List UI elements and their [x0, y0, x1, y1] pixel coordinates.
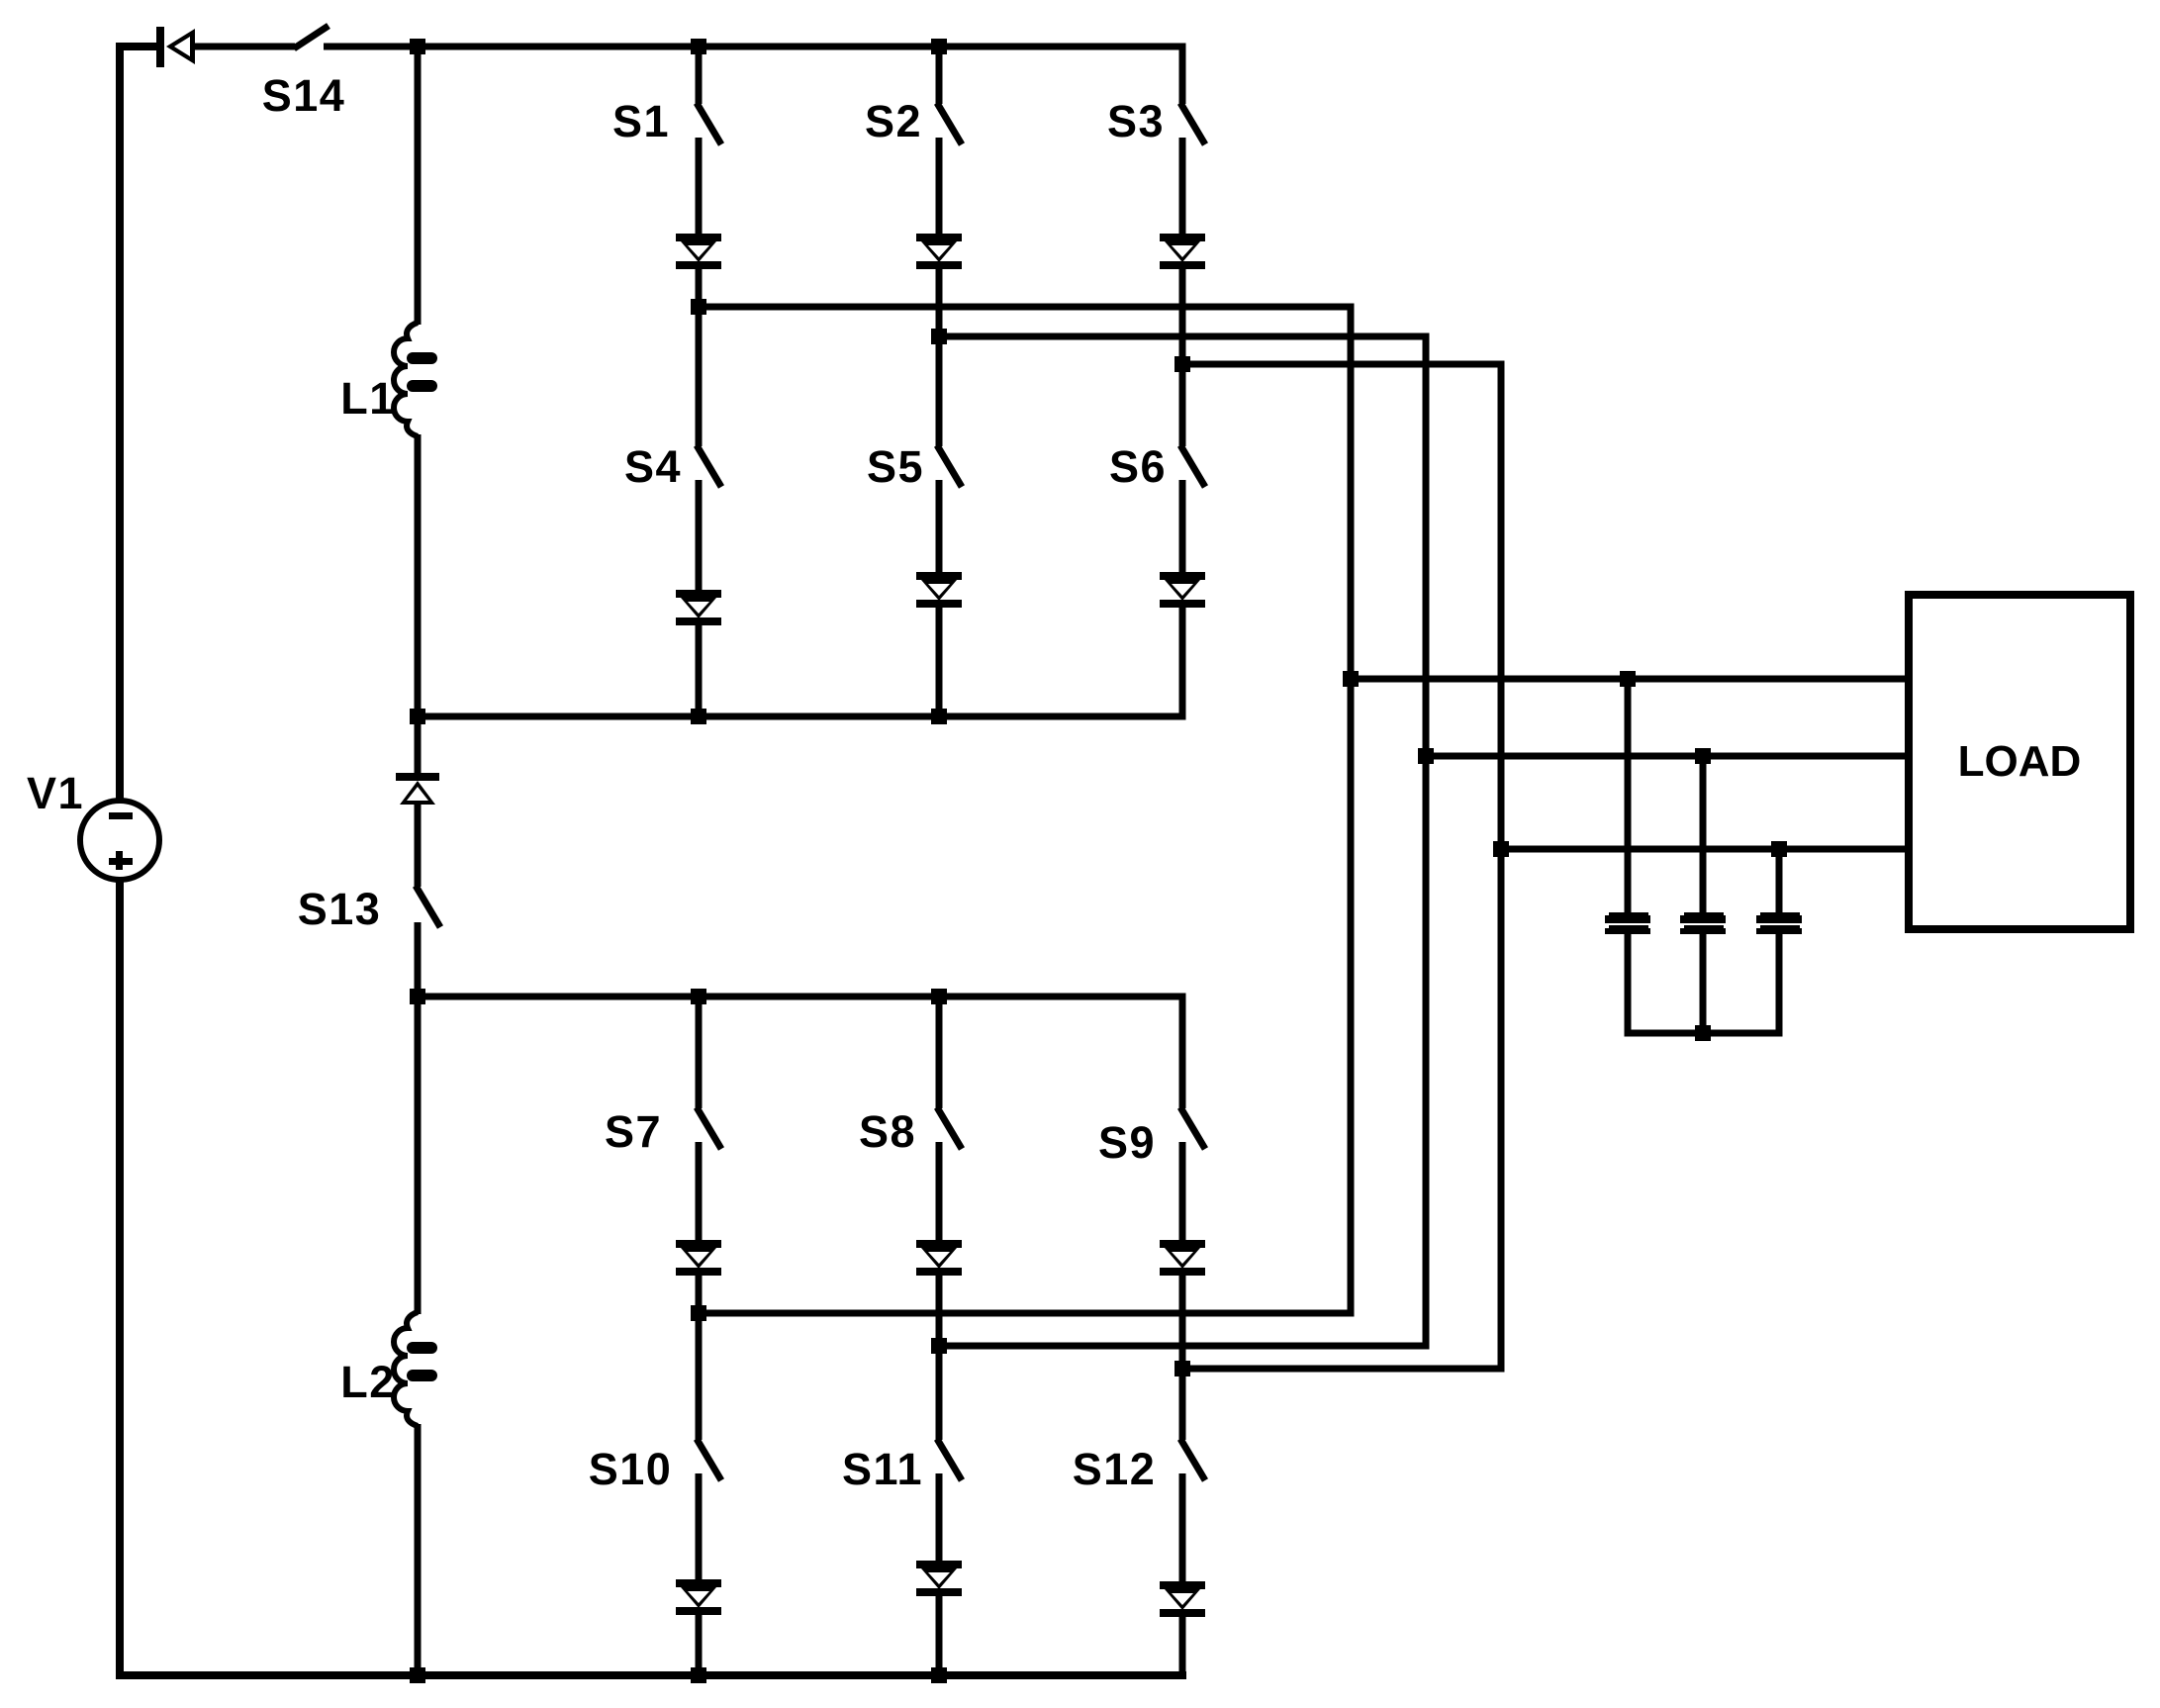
svg-text:S4: S4	[624, 441, 682, 492]
node bottom rail / S10	[691, 1667, 706, 1683]
switch S12 arm	[1180, 1439, 1205, 1480]
wire top rail to switch S3	[1179, 47, 1186, 104]
node phase B / S2-S5	[931, 329, 947, 344]
node phase A vertical / load line	[1343, 671, 1359, 687]
svg-text:L2: L2	[340, 1357, 396, 1407]
wire phase node to switch S5	[936, 336, 943, 446]
wire S4 to diode D4	[696, 480, 703, 592]
wire phase node to switch S11	[936, 1346, 943, 1440]
svg-text:S11: S11	[842, 1444, 923, 1494]
diode D10	[676, 1579, 721, 1587]
wire phase C net	[1182, 364, 1501, 1369]
wire phase node to switch S10	[696, 1313, 703, 1440]
svg-text:S6: S6	[1109, 441, 1167, 492]
wire L1 to mid rail	[415, 434, 422, 716]
wire to L2	[415, 996, 422, 1314]
LOAD box	[1909, 595, 2130, 929]
wire capacitor C3 to common rail	[1776, 933, 1783, 1033]
wire S6 to diode D6	[1179, 480, 1186, 574]
node phase C / S9-S12	[1174, 1361, 1190, 1376]
node mid rail / column	[410, 709, 425, 724]
node bottom bridge rail / S8	[931, 989, 947, 1004]
voltage source V1	[80, 801, 159, 880]
svg-text:S13: S13	[298, 884, 382, 934]
wire D12 to bottom rail	[1179, 1616, 1186, 1675]
switch S4 arm	[697, 445, 721, 487]
wire phase node to switch S12	[1179, 1369, 1186, 1440]
wire D9 to phase node	[1179, 1275, 1186, 1369]
switch S2 arm	[937, 103, 962, 144]
diode D3	[1160, 234, 1205, 241]
diode D7	[676, 1240, 721, 1248]
wire D3 to phase node	[1179, 268, 1186, 364]
diode D2	[916, 234, 962, 241]
node bottom rail / S11	[931, 1667, 947, 1683]
wire phase A net	[699, 307, 1351, 1313]
switch S9 arm	[1180, 1107, 1205, 1149]
wire S8 to diode D8	[936, 1142, 943, 1242]
svg-text:LOAD: LOAD	[1958, 737, 2082, 786]
wire phase B net	[939, 336, 1426, 1346]
wire D8 to phase node	[936, 1275, 943, 1346]
svg-text:S5: S5	[867, 441, 924, 492]
wire V1 to bottom rail and bottom rail	[120, 880, 1186, 1675]
bottom bridge top rail	[415, 994, 1186, 1000]
switch S8 arm	[937, 1107, 962, 1149]
switch S14 arm	[294, 26, 329, 48]
switch S5 arm	[937, 445, 962, 487]
wire D5 to mid rail	[936, 607, 943, 716]
inductor L1	[394, 323, 418, 436]
svg-text:S9: S9	[1098, 1117, 1156, 1168]
node capacitor rail middle	[1695, 1025, 1711, 1041]
wire S1 to diode D1	[696, 138, 703, 236]
wire capacitor C1 to common rail	[1625, 933, 1632, 1033]
wire mid node to diode D13	[415, 716, 422, 775]
node top rail / S2	[931, 39, 947, 54]
wire top rail to switch S1	[696, 47, 703, 104]
switch S10 arm	[697, 1439, 721, 1480]
wire L2 to bottom rail	[415, 1424, 422, 1675]
diode D14 triangle	[166, 29, 195, 64]
V1 plus sign	[109, 858, 133, 865]
diode D8	[916, 1240, 962, 1248]
svg-text:V1: V1	[27, 768, 84, 818]
svg-text:S3: S3	[1107, 96, 1165, 146]
wire S7 to diode D7	[696, 1142, 703, 1242]
wire D10 to bottom rail	[696, 1614, 703, 1675]
svg-text:S10: S10	[589, 1444, 673, 1494]
diode D12	[1160, 1581, 1205, 1589]
wire D1 to phase node	[696, 268, 703, 307]
diode D9	[1160, 1240, 1205, 1248]
switch S13 arm	[416, 886, 440, 927]
node load line / capacitor C2	[1695, 748, 1711, 764]
wire S3 to diode D3	[1179, 138, 1186, 236]
wire S9 to diode D9	[1179, 1142, 1186, 1242]
wire bottom bridge rail to switch S9	[1179, 996, 1186, 1108]
diode D5	[916, 572, 962, 580]
svg-text:S12: S12	[1073, 1444, 1157, 1494]
node phase B vertical / load line	[1418, 748, 1434, 764]
diode D6	[1160, 572, 1205, 580]
wire S13 to bottom bridge rail	[415, 922, 422, 996]
capacitor C1	[1609, 912, 1648, 917]
node bottom bridge rail / S7	[691, 989, 706, 1004]
wire phase node to switch S6	[1179, 364, 1186, 446]
wire bottom bridge rail to switch S8	[936, 996, 943, 1108]
wire capacitor C2 to common rail	[1700, 933, 1707, 1033]
wire phase node to switch S4	[696, 307, 703, 446]
wire load line to capacitor C3	[1776, 849, 1783, 914]
diode D11	[916, 1561, 962, 1568]
wire S12 to diode D12	[1179, 1473, 1186, 1583]
wire D6 to mid rail	[1179, 607, 1186, 716]
switch S3 arm	[1180, 103, 1205, 144]
diode D13 (up)	[396, 773, 439, 781]
switch S6 arm	[1180, 445, 1205, 487]
wire S2 to diode D2	[936, 138, 943, 236]
switch S1 arm	[697, 103, 721, 144]
node phase A / S1-S4	[691, 299, 706, 315]
wire S14 to L1 column	[324, 44, 1186, 50]
svg-text:S14: S14	[262, 70, 346, 121]
node phase A / S7-S10	[691, 1305, 706, 1321]
wire load line to capacitor C2	[1700, 756, 1707, 914]
wire top rail to L1	[415, 47, 422, 325]
node phase C vertical / load line	[1493, 841, 1509, 857]
wire top-left corner from diode to left rail	[120, 47, 156, 801]
node mid rail / S4	[691, 709, 706, 724]
svg-text:S8: S8	[859, 1106, 916, 1157]
wire load line to capacitor C1	[1625, 679, 1632, 914]
V1 minus sign	[109, 812, 133, 819]
wire S10 to diode D10	[696, 1473, 703, 1581]
node load line / capacitor C1	[1620, 671, 1636, 687]
diode D14 (cathode bar)	[156, 27, 164, 67]
wire D14 to switch S14	[194, 44, 295, 50]
inductor L2	[394, 1312, 418, 1426]
wire top rail to switch S2	[936, 47, 943, 104]
node bottom rail / column	[410, 1667, 425, 1683]
node top rail / L1 column	[410, 39, 425, 54]
wire S5 to diode D5	[936, 480, 943, 574]
capacitor C3	[1760, 912, 1800, 917]
wire phase C to LOAD	[1501, 846, 1909, 853]
svg-text:S2: S2	[865, 96, 922, 146]
capacitor C2	[1684, 912, 1724, 917]
wire D2 to phase node	[936, 268, 943, 336]
wire bottom bridge rail to switch S7	[696, 996, 703, 1108]
wire D13 to switch S13	[415, 804, 422, 887]
node mid rail / S5	[931, 709, 947, 724]
node load line / capacitor C3	[1771, 841, 1787, 857]
wire S11 to diode D11	[936, 1473, 943, 1563]
wire phase B to LOAD	[1426, 753, 1909, 760]
switch S11 arm	[937, 1439, 962, 1480]
svg-text:S7: S7	[605, 1106, 662, 1157]
svg-text:S1: S1	[612, 96, 670, 146]
svg-text:L1: L1	[340, 373, 396, 424]
node top rail / S1	[691, 39, 706, 54]
top bridge bottom rail	[415, 713, 1186, 720]
wire D7 to phase node	[696, 1275, 703, 1313]
node phase C / S3-S6	[1174, 356, 1190, 372]
switch S7 arm	[697, 1107, 721, 1149]
diode D1	[676, 234, 721, 241]
capacitor common bottom rail	[1625, 1030, 1783, 1037]
wire D11 to bottom rail	[936, 1595, 943, 1675]
node bottom bridge rail / column	[410, 989, 425, 1004]
wire D4 to mid rail	[696, 624, 703, 716]
node phase B / S8-S11	[931, 1338, 947, 1354]
wire phase A to LOAD	[1351, 676, 1909, 683]
diode D4	[676, 590, 721, 598]
